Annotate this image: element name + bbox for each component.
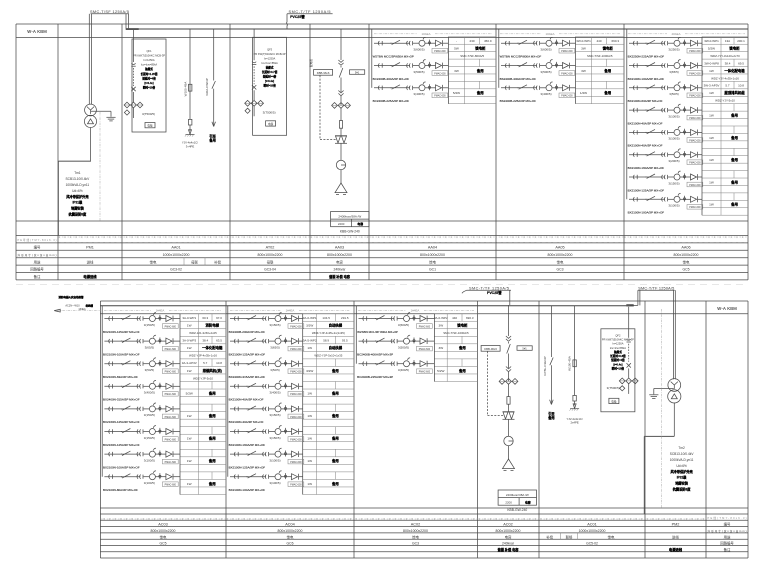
- svg-text:3(150/5): 3(150/5): [269, 323, 280, 327]
- svg-text:馈电: 馈电: [429, 259, 436, 264]
- svg-text:1W: 1W: [709, 136, 714, 140]
- svg-text:备用: 备用: [208, 138, 215, 143]
- svg-text:230: 230: [470, 39, 475, 43]
- svg-text:PMAC-600: PMAC-600: [561, 95, 573, 98]
- svg-text:风冷带保护外壳: 风冷带保护外壳: [66, 194, 89, 199]
- svg-text:1W: 1W: [709, 180, 714, 184]
- svg-text:电源进线: 电源进线: [83, 274, 97, 279]
- svg-text:PMAC-600: PMAC-600: [290, 484, 302, 487]
- svg-text:3W-3-AP3V: 3W-3-AP3V: [704, 84, 720, 88]
- svg-text:BX2100N-100A/3P MX+OF: BX2100N-100A/3P MX+OF: [103, 352, 140, 356]
- svg-text:3(T500/5): 3(T500/5): [142, 112, 155, 116]
- svg-text:60.3: 60.3: [202, 316, 208, 320]
- svg-text:补偿: 补偿: [214, 259, 221, 264]
- svg-text:1#AEA: 1#AEA: [546, 32, 555, 36]
- svg-text:W-A KBM: W-A KBM: [27, 29, 47, 34]
- svg-text:IP31级: IP31级: [677, 475, 688, 480]
- svg-text:5.7: 5.7: [725, 84, 730, 88]
- svg-text:备用: 备用: [331, 390, 339, 395]
- svg-text:补偿: 补偿: [546, 534, 553, 539]
- svg-text:电源进线: 电源进线: [669, 547, 683, 552]
- svg-text:电操: 电操: [147, 124, 153, 128]
- svg-text:PMAC-600: PMAC-600: [165, 438, 177, 441]
- svg-text:W2SBN MCL/3P 800A MX+3P: W2SBN MCL/3P 800A MX+3P: [357, 330, 398, 334]
- svg-text:5/2W: 5/2W: [708, 47, 715, 51]
- svg-text:AC02: AC02: [503, 523, 513, 527]
- svg-text:抽屉式: 抽屉式: [265, 66, 274, 70]
- svg-text:SMC-T/TF 1250A/5: SMC-T/TF 1250A/5: [469, 287, 509, 291]
- svg-text:PM1: PM1: [86, 246, 94, 250]
- svg-text:AT02: AT02: [266, 246, 275, 250]
- svg-text:3(100/5): 3(100/5): [144, 458, 155, 462]
- svg-text:馈电: 馈电: [287, 534, 294, 539]
- svg-text:BC2400B-400A/3P MX+OF: BC2400B-400A/3P MX+OF: [373, 77, 410, 81]
- svg-text:BX2100N-40A/3P MX+OF: BX2100N-40A/3P MX+OF: [229, 420, 264, 424]
- svg-text:一体化配电箱: 一体化配电箱: [724, 68, 745, 73]
- svg-text:13A: 13A: [725, 39, 730, 43]
- svg-text:3(150/5): 3(150/5): [144, 436, 155, 440]
- svg-text:800x1000x2200: 800x1000x2200: [327, 253, 352, 257]
- svg-text:69.5: 69.5: [738, 61, 744, 65]
- svg-text:备用: 备用: [331, 413, 339, 418]
- svg-text:800x1000x2200: 800x1000x2200: [278, 529, 303, 533]
- svg-text:WDZ-YJP-5x10+1x35: WDZ-YJP-5x10+1x35: [314, 354, 342, 358]
- svg-text:240kvar: 240kvar: [333, 268, 346, 272]
- svg-text:电容: 电容: [336, 259, 343, 264]
- svg-text:PMAC-600: PMAC-600: [165, 348, 177, 351]
- svg-text:PVC25管: PVC25管: [290, 14, 305, 19]
- svg-text:1#4EA: 1#4EA: [156, 309, 165, 313]
- svg-text:QF2: QF2: [615, 333, 621, 337]
- svg-text:PMAC-600: PMAC-600: [290, 393, 302, 396]
- svg-text:抽屉式: 抽屉式: [613, 350, 622, 354]
- svg-text:5W: 5W: [454, 47, 459, 51]
- svg-text:WDZ-YJY-4x35+1x16: WDZ-YJY-4x35+1x16: [711, 76, 739, 80]
- svg-text:BX2100N-100A/3P MX+OF: BX2100N-100A/3P MX+OF: [229, 488, 266, 492]
- svg-text:BX2100N-125A/3P MX+OF: BX2100N-125A/3P MX+OF: [229, 465, 266, 469]
- svg-text:1#4EA: 1#4EA: [286, 309, 295, 313]
- svg-text:PMAC-600: PMAC-600: [434, 95, 446, 98]
- svg-text:3W: 3W: [438, 324, 443, 328]
- svg-text:BX2100N-40A/3P MX+OF: BX2100N-40A/3P MX+OF: [628, 144, 663, 148]
- svg-text:馈电: 馈电: [557, 259, 564, 264]
- svg-text:Tm2: Tm2: [678, 446, 685, 450]
- svg-text:[t=0.4s]: [t=0.4s]: [144, 81, 153, 85]
- svg-text:3(600/5): 3(600/5): [540, 48, 551, 52]
- svg-text:In=1250A: In=1250A: [143, 58, 154, 62]
- svg-text:AA04: AA04: [428, 246, 437, 250]
- svg-text:3(150/5): 3(150/5): [144, 323, 155, 327]
- svg-text:AA06: AA06: [681, 246, 690, 250]
- svg-text:1W: 1W: [307, 391, 312, 395]
- svg-text:2400kvar/38A /W: 2400kvar/38A /W: [338, 214, 361, 218]
- svg-text:3(65/5): 3(65/5): [669, 70, 679, 74]
- svg-text:3(400/5): 3(400/5): [269, 391, 280, 395]
- svg-text:Tm1: Tm1: [74, 171, 81, 175]
- svg-text:短延时=4倍: 短延时=4倍: [611, 358, 625, 362]
- svg-text:短延时=4倍: 短延时=4倍: [142, 76, 156, 80]
- svg-text:BC2400B-400A/3P MX+3P: BC2400B-400A/3P MX+3P: [357, 352, 393, 356]
- svg-text:PMAC-600: PMAC-600: [689, 162, 701, 165]
- svg-text:备用: 备用: [730, 202, 738, 207]
- svg-text:93.5: 93.5: [342, 339, 348, 343]
- svg-text:BS2400B-400A/3P MX+OF: BS2400B-400A/3P MX+OF: [500, 77, 537, 81]
- svg-text:1W: 1W: [307, 459, 312, 463]
- svg-text:1/2W: 1/2W: [580, 91, 587, 95]
- svg-text:3A-5-WP2: 3A-5-WP2: [303, 339, 317, 343]
- svg-text:QF1: QF1: [146, 49, 152, 53]
- svg-text:In=1250A: In=1250A: [264, 56, 275, 60]
- svg-text:长延时=0.8倍: 长延时=0.8倍: [610, 354, 626, 358]
- svg-text:PMAC-600: PMAC-600: [689, 50, 701, 53]
- svg-text:PMAC-600: PMAC-600: [689, 206, 701, 209]
- svg-text:备用: 备用: [458, 368, 466, 373]
- svg-text:馈电柜: 馈电柜: [475, 46, 486, 51]
- svg-text:备用: 备用: [331, 436, 339, 441]
- svg-text:GC5-02: GC5-02: [586, 542, 598, 546]
- svg-text:5/2W: 5/2W: [186, 391, 193, 395]
- svg-text:1W: 1W: [307, 414, 312, 418]
- svg-text:10.8: 10.8: [738, 84, 744, 88]
- svg-text:AC01: AC01: [587, 523, 597, 527]
- svg-text:馈电: 馈电: [683, 259, 690, 264]
- svg-text:SMC-T/TF 1250A/5: SMC-T/TF 1250A/5: [289, 10, 331, 14]
- svg-text:690.3: 690.3: [611, 39, 619, 43]
- svg-text:备用: 备用: [476, 68, 484, 73]
- svg-text:SCB13-10/0.4kV: SCB13-10/0.4kV: [66, 177, 91, 181]
- svg-text:备用: 备用: [603, 90, 611, 95]
- svg-text:3(600/5): 3(600/5): [413, 48, 424, 52]
- svg-text:134.5: 134.5: [322, 316, 330, 320]
- svg-text:馈电柜: 馈电柜: [457, 323, 468, 328]
- svg-text:58.9: 58.9: [323, 339, 329, 343]
- svg-text:630A-CW/3P: 630A-CW/3P: [205, 78, 209, 96]
- svg-text:1W: 1W: [709, 158, 714, 162]
- svg-text:291.5: 291.5: [341, 316, 349, 320]
- svg-text:PMAC-600: PMAC-600: [561, 72, 573, 75]
- svg-text:3W-0-WP8: 3W-0-WP8: [704, 61, 719, 65]
- svg-text:3(150/5): 3(150/5): [269, 413, 280, 417]
- svg-text:PMAC-600: PMAC-600: [689, 95, 701, 98]
- svg-text:3(T500/5): 3(T500/5): [263, 110, 276, 114]
- svg-text:3/2W: 3/2W: [306, 324, 313, 328]
- svg-text:2200: 2200: [338, 222, 345, 226]
- svg-text:3(T500/5): 3(T500/5): [607, 386, 620, 390]
- svg-text:PMAC-600: PMAC-600: [689, 139, 701, 142]
- svg-text:一体化配电箱: 一体化配电箱: [202, 345, 223, 350]
- svg-text:谐振 补偿 电容: 谐振 补偿 电容: [498, 547, 520, 552]
- svg-text:自动扶梯: 自动扶梯: [329, 323, 343, 328]
- svg-text:1W: 1W: [187, 437, 192, 441]
- svg-text:1W: 1W: [187, 459, 192, 463]
- svg-text:BX2400N-315A/3P MX+OF: BX2400N-315A/3P MX+OF: [229, 375, 266, 379]
- svg-text:PR KW(T)510AKC MCB-3P: PR KW(T)510AKC MCB-3P: [133, 54, 165, 58]
- svg-text:63.5: 63.5: [216, 339, 222, 343]
- svg-text:IP31级: IP31级: [73, 200, 84, 205]
- svg-text:PMAC-600: PMAC-600: [561, 50, 573, 53]
- svg-text:谐振 补偿 电容: 谐振 补偿 电容: [329, 274, 351, 279]
- svg-text:3W-0-WP1: 3W-0-WP1: [704, 39, 719, 43]
- svg-text:电容: 电容: [357, 221, 363, 226]
- svg-text:PMAC-600: PMAC-600: [419, 348, 431, 351]
- svg-text:PVC25管: PVC25管: [487, 290, 502, 295]
- svg-text:3(400/5): 3(400/5): [540, 92, 551, 96]
- svg-text:GC3-04: GC3-04: [264, 268, 276, 272]
- svg-text:2200: 2200: [505, 500, 512, 504]
- svg-text:Icu=Icw=85kA: Icu=Icw=85kA: [141, 63, 158, 67]
- svg-text:3(500/5): 3(500/5): [540, 70, 551, 74]
- svg-text:2x4PE: 2x4PE: [570, 421, 578, 425]
- svg-text:3A-0-WP1: 3A-0-WP1: [182, 316, 196, 320]
- svg-text:地脚安装: 地脚安装: [675, 481, 689, 486]
- svg-text:外形尺寸(宽x深x高mm): 外形尺寸(宽x深x高mm): [18, 253, 57, 257]
- svg-text:消防电梯: 消防电梯: [205, 323, 219, 328]
- svg-text:3(400/5): 3(400/5): [413, 92, 424, 96]
- svg-text:1W: 1W: [709, 114, 714, 118]
- svg-text:PMAC-600: PMAC-600: [290, 325, 302, 328]
- svg-text:消防电梯火灾自动报警: 消防电梯火灾自动报警: [58, 295, 84, 299]
- svg-text:440: 440: [596, 39, 601, 43]
- svg-text:800x1000x2200: 800x1000x2200: [151, 529, 176, 533]
- svg-text:3(100/5): 3(100/5): [668, 137, 679, 141]
- svg-text:3(250/5): 3(250/5): [668, 48, 679, 52]
- svg-text:[t=0.4s]: [t=0.4s]: [265, 79, 274, 83]
- svg-text:编号: 编号: [34, 245, 41, 250]
- svg-text:联络: 联络: [566, 534, 573, 539]
- svg-text:1000x1000x2200: 1000x1000x2200: [579, 529, 606, 533]
- svg-text:瞬时=10倍: 瞬时=10倍: [143, 85, 156, 89]
- svg-text:WDZ-YJY-5x10: WDZ-YJY-5x10: [715, 99, 735, 103]
- svg-text:1W: 1W: [187, 346, 192, 350]
- svg-text:1W: 1W: [709, 69, 714, 73]
- svg-text:GC3-02: GC3-02: [170, 268, 182, 272]
- svg-text:800x1000x2200: 800x1000x2200: [496, 529, 521, 533]
- svg-text:SMC-T/SF-1000A/5: SMC-T/SF-1000A/5: [443, 331, 469, 335]
- svg-text:馈电: 馈电: [608, 534, 615, 539]
- svg-text:瞬时=10倍: 瞬时=10倍: [264, 84, 277, 88]
- svg-text:PMAC-600: PMAC-600: [165, 416, 177, 419]
- svg-text:BX2100N-100A/3P MX+OF: BX2100N-100A/3P MX+OF: [628, 211, 665, 215]
- svg-text:PMAC-600: PMAC-600: [290, 371, 302, 374]
- svg-text:240kvar: 240kvar: [502, 542, 515, 546]
- svg-text:WDZ-121-3x50+2x25: WDZ-121-3x50+2x25: [189, 331, 217, 335]
- svg-text:瞬时=10倍: 瞬时=10倍: [612, 367, 625, 371]
- svg-text:3W: 3W: [581, 47, 586, 51]
- svg-text:3/2W: 3/2W: [306, 369, 313, 373]
- svg-text:BX2400B-200A/3P MX+OF: BX2400B-200A/3P MX+OF: [229, 330, 266, 334]
- svg-text:母联: 母联: [267, 259, 274, 264]
- svg-text:PMAC-600: PMAC-600: [419, 371, 431, 374]
- svg-text:1#4EA: 1#4EA: [78, 308, 86, 311]
- svg-text:PMAC-600: PMAC-600: [165, 325, 177, 328]
- svg-text:KBB-GW-240: KBB-GW-240: [340, 230, 360, 234]
- svg-text:3(400/5): 3(400/5): [144, 391, 155, 395]
- svg-text:回路编号: 回路编号: [720, 541, 734, 546]
- svg-text:1W: 1W: [709, 91, 714, 95]
- svg-text:3(65/5): 3(65/5): [145, 345, 155, 349]
- svg-text:GC5: GC5: [683, 268, 690, 272]
- svg-text:Icu=Icw=85kA: Icu=Icw=85kA: [610, 346, 627, 350]
- svg-text:1W: 1W: [187, 369, 192, 373]
- svg-text:PE线(TMY-80x6.3): PE线(TMY-80x6.3): [708, 516, 747, 520]
- svg-text:W-A KBM: W-A KBM: [717, 306, 737, 311]
- svg-text:3(150/5): 3(150/5): [668, 181, 679, 185]
- svg-text:W100-45A: W100-45A: [568, 355, 572, 371]
- svg-text:QF3: QF3: [267, 47, 273, 51]
- svg-text:10.8: 10.8: [216, 361, 222, 365]
- svg-text:馈电柜: 馈电柜: [729, 46, 740, 51]
- svg-text:WDZ-YJP-4x35+2x(1x35): WDZ-YJP-4x35+2x(1x35): [312, 331, 345, 335]
- svg-text:外形尺寸(宽x深x高mm): 外形尺寸(宽x深x高mm): [708, 529, 747, 533]
- svg-text:5/2W: 5/2W: [437, 369, 444, 373]
- svg-text:3(100/5): 3(100/5): [144, 481, 155, 485]
- svg-text:屋顶排风机组: 屋顶排风机组: [724, 90, 745, 95]
- svg-text:电操: 电操: [268, 122, 274, 126]
- svg-text:风冷带保护外壳: 风冷带保护外壳: [670, 469, 693, 474]
- svg-text:BX2100N-80A/3P MX+OF: BX2100N-80A/3P MX+OF: [103, 488, 138, 492]
- svg-text:3(50/5): 3(50/5): [145, 368, 155, 372]
- svg-text:短延时=4倍: 短延时=4倍: [263, 75, 277, 79]
- svg-text:1W: 1W: [307, 346, 312, 350]
- svg-text:5#1: 5#1: [355, 71, 360, 75]
- svg-text:GC3: GC3: [412, 542, 419, 546]
- svg-text:GC6: GC6: [287, 542, 294, 546]
- svg-text:BX2400N-315A/3P MX+OF: BX2400N-315A/3P MX+OF: [103, 398, 140, 402]
- svg-text:备用: 备用: [476, 90, 484, 95]
- svg-text:PMAC-600: PMAC-600: [165, 461, 177, 464]
- svg-text:BX2160N-125A/3P MX+OF: BX2160N-125A/3P MX+OF: [103, 420, 140, 424]
- svg-text:1W: 1W: [187, 482, 192, 486]
- svg-text:3(400/5): 3(400/5): [398, 368, 409, 372]
- svg-text:690.3: 690.3: [466, 316, 474, 320]
- svg-text:38.4: 38.4: [202, 339, 208, 343]
- svg-text:备用: 备用: [730, 113, 738, 118]
- svg-text:WDZ-YJP-4x35+1x16: WDZ-YJP-4x35+1x16: [189, 354, 217, 358]
- svg-text:备用: 备用: [208, 390, 216, 395]
- svg-text:3W: 3W: [438, 346, 443, 350]
- svg-text:PR KW(T)510AKC MCB-3P: PR KW(T)510AKC MCB-3P: [602, 337, 634, 341]
- svg-text:备用: 备用: [730, 157, 738, 162]
- svg-text:[t=0.4s]: [t=0.4s]: [613, 362, 622, 366]
- svg-text:1#4EA: 1#4EA: [411, 309, 420, 313]
- svg-text:备用: 备用: [331, 458, 339, 463]
- svg-text:BX2100N-63A/3P MX+OF: BX2100N-63A/3P MX+OF: [103, 375, 138, 379]
- svg-text:1W: 1W: [307, 437, 312, 441]
- svg-text:PMAC-600: PMAC-600: [290, 348, 302, 351]
- svg-text:1000kVA-D,yn11: 1000kVA-D,yn11: [670, 458, 694, 462]
- svg-text:回路编号: 回路编号: [30, 267, 44, 272]
- svg-text:抽屉式: 抽屉式: [144, 67, 153, 71]
- svg-text:3(100/5): 3(100/5): [269, 481, 280, 485]
- svg-text:1W: 1W: [187, 414, 192, 418]
- svg-text:BX2100N-160A/3P MX+OF: BX2100N-160A/3P MX+OF: [229, 443, 266, 447]
- svg-text:备用: 备用: [208, 436, 216, 441]
- svg-text:备用: 备用: [208, 481, 216, 486]
- svg-text:用途: 用途: [724, 534, 731, 539]
- svg-text:PE母线(TMY-80x6.3): PE母线(TMY-80x6.3): [18, 238, 57, 242]
- svg-text:备用: 备用: [730, 179, 738, 184]
- svg-text:电操: 电操: [611, 400, 617, 404]
- svg-text:SMC-T/TF 1250A/5: SMC-T/TF 1250A/5: [638, 286, 674, 290]
- svg-text:地脚安装: 地脚安装: [71, 206, 85, 211]
- svg-text:电容: 电容: [505, 534, 512, 539]
- svg-text:3(65/5): 3(65/5): [270, 345, 280, 349]
- svg-text:AA05: AA05: [555, 246, 564, 250]
- svg-text:AC04: AC04: [285, 523, 295, 527]
- svg-text:3W-0-WP1: 3W-0-WP1: [576, 39, 591, 43]
- svg-text:Ud=6%: Ud=6%: [72, 189, 83, 193]
- svg-text:GC1: GC1: [429, 268, 436, 272]
- svg-text:AA03: AA03: [335, 246, 344, 250]
- svg-text:PMAC-600: PMAC-600: [689, 72, 701, 75]
- svg-text:WDZ-YJP-5x10: WDZ-YJP-5x10: [193, 376, 213, 380]
- svg-text:PMAC-600: PMAC-600: [290, 416, 302, 419]
- svg-text:电容: 电容: [525, 499, 531, 504]
- svg-text:Ud=6%: Ud=6%: [676, 464, 687, 468]
- svg-text:3(600/5): 3(600/5): [398, 323, 409, 327]
- svg-text:BX2250N-225A/3P MX+OF: BX2250N-225A/3P MX+OF: [628, 55, 665, 59]
- svg-text:进线: 进线: [672, 534, 679, 539]
- svg-text:PMAC-600: PMAC-600: [290, 438, 302, 441]
- svg-text:PMAC-600: PMAC-600: [434, 72, 446, 75]
- svg-text:馈电: 馈电: [150, 259, 157, 264]
- svg-text:W2TBN MCC/3P/630A MX+3P: W2TBN MCC/3P/630A MX+3P: [373, 55, 414, 59]
- svg-text:PMAC-600: PMAC-600: [434, 50, 446, 53]
- svg-text:备用: 备用: [458, 345, 466, 350]
- svg-text:3A-0-WP2: 3A-0-WP2: [434, 316, 448, 320]
- svg-text:SCB13-10/0.4kV: SCB13-10/0.4kV: [670, 452, 695, 456]
- svg-text:38.4: 38.4: [725, 61, 731, 65]
- svg-text:AC02: AC02: [411, 523, 421, 527]
- svg-text:800x1000x2200: 800x1000x2200: [258, 253, 283, 257]
- svg-text:3W: 3W: [581, 69, 586, 73]
- svg-text:PM2: PM2: [672, 523, 680, 527]
- svg-text:BS2400B-225A/3P MX+OF: BS2400B-225A/3P MX+OF: [500, 99, 537, 103]
- svg-text:BX2100N-100A/3P MX+OF: BX2100N-100A/3P MX+OF: [103, 465, 140, 469]
- svg-text:PMAC-600: PMAC-600: [165, 393, 177, 396]
- svg-text:馈电柜: 馈电柜: [603, 46, 614, 51]
- svg-text:KBB-GW-240: KBB-GW-240: [507, 508, 527, 512]
- svg-text:抗震设防8度: 抗震设防8度: [69, 212, 88, 217]
- svg-text:3A-3-AP3V: 3A-3-AP3V: [182, 361, 197, 365]
- svg-text:排烟风机(消): 排烟风机(消): [203, 368, 222, 373]
- svg-text:GC5: GC5: [160, 542, 167, 546]
- svg-text:800x1000x2200: 800x1000x2200: [674, 253, 699, 257]
- svg-text:用途: 用途: [34, 259, 41, 264]
- svg-text:WDZ-YJY-3x120+2x70: WDZ-YJY-3x120+2x70: [710, 54, 740, 58]
- svg-text:SMC-T/SF-1000A/5: SMC-T/SF-1000A/5: [587, 54, 613, 58]
- svg-text:5.7: 5.7: [203, 361, 208, 365]
- svg-text:Icu=Icw=85kA: Icu=Icw=85kA: [261, 61, 278, 65]
- svg-text:长延时=0.7倍: 长延时=0.7倍: [262, 70, 278, 74]
- svg-text:KBB-96x6: KBB-96x6: [484, 347, 497, 351]
- svg-text:BC2400B-225A/3P MX+3P: BC2400B-225A/3P MX+3P: [357, 375, 393, 379]
- svg-text:BC2400B-225A/3P MX+OF: BC2400B-225A/3P MX+OF: [373, 99, 410, 103]
- svg-text:PMAC-600: PMAC-600: [165, 371, 177, 374]
- svg-text:1#AEA: 1#AEA: [422, 32, 431, 36]
- svg-text:SMC-T/SF 1250A/5: SMC-T/SF 1250A/5: [90, 10, 129, 14]
- svg-text:800x1000x2200: 800x1000x2200: [548, 253, 573, 257]
- svg-text:配电柜: 配电柜: [309, 59, 313, 68]
- svg-text:3(50/5): 3(50/5): [669, 92, 679, 96]
- svg-text:长延时=1.25倍: 长延时=1.25倍: [141, 72, 158, 76]
- svg-text:GYBL-C3E/3P: GYBL-C3E/3P: [543, 356, 547, 375]
- svg-text:备用: 备用: [603, 68, 611, 73]
- svg-text:BX2100N-125A/3P MX+OF: BX2100N-125A/3P MX+OF: [229, 352, 266, 356]
- svg-text:3(150/5): 3(150/5): [144, 413, 155, 417]
- svg-text:PMAC-600: PMAC-600: [689, 184, 701, 187]
- svg-text:BX2160N-125A/3P MX+OF: BX2160N-125A/3P MX+OF: [103, 443, 140, 447]
